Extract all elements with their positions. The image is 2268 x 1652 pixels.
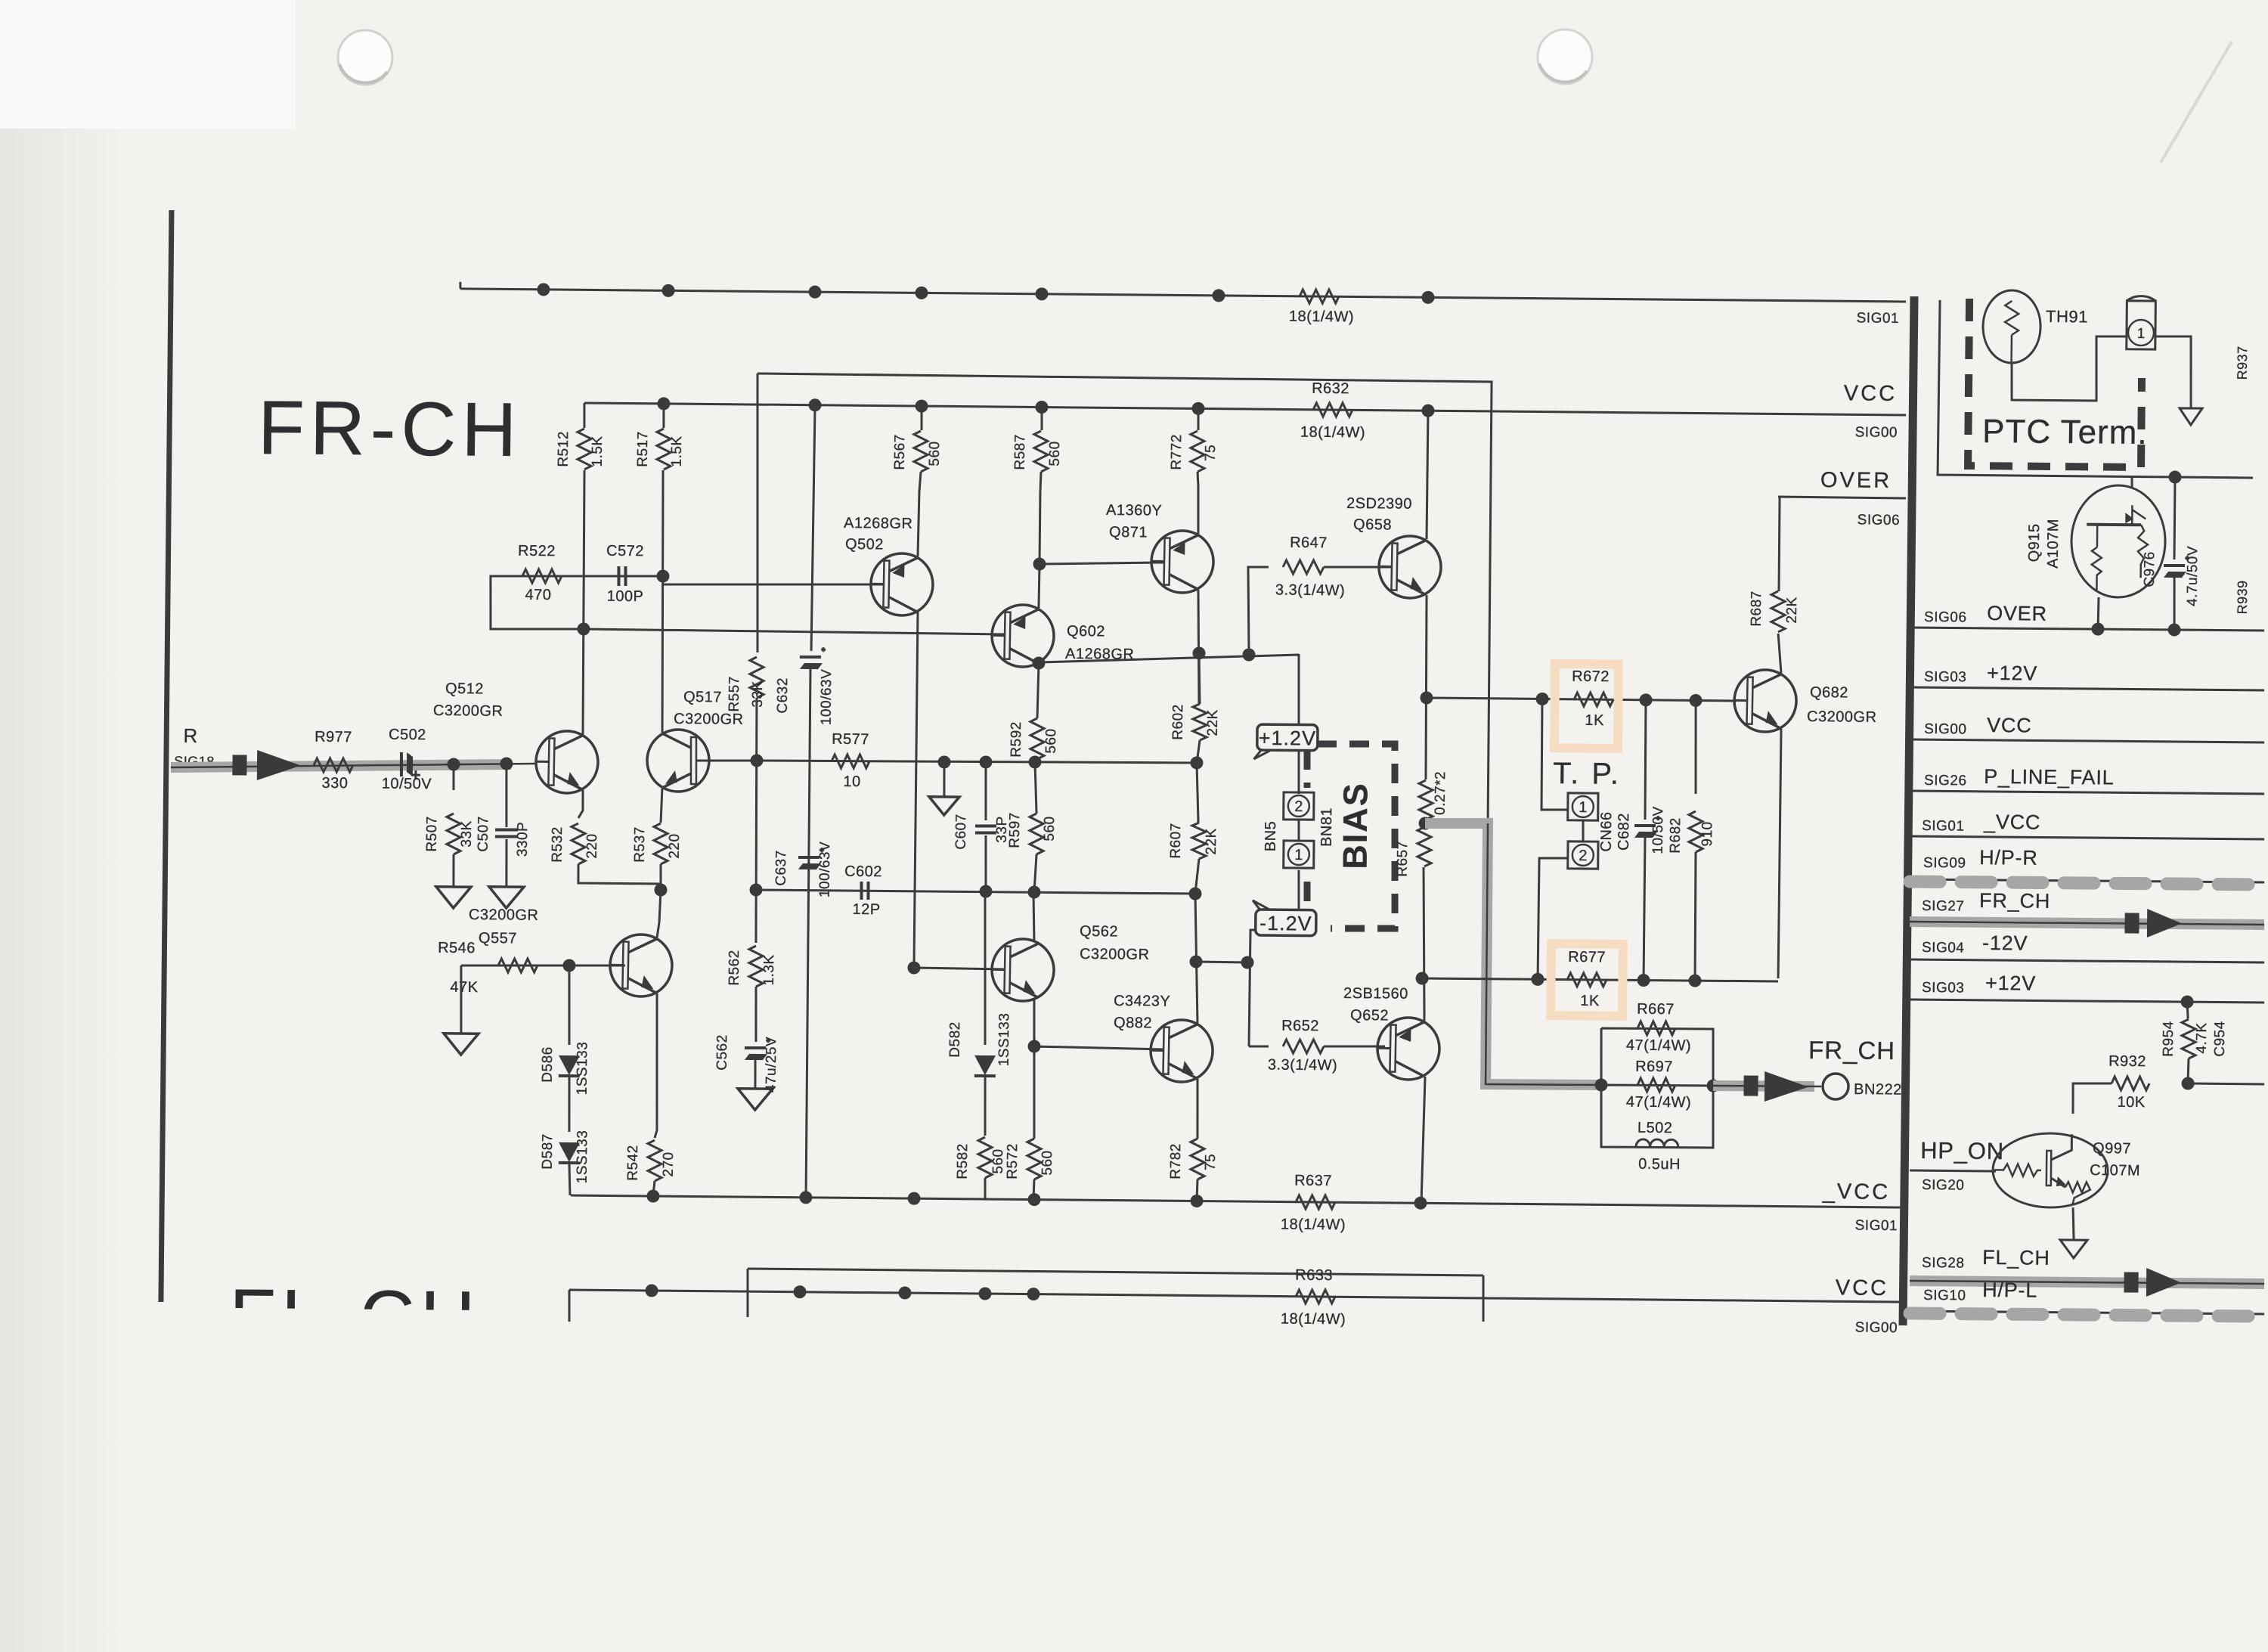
resistor R517 1.5K [662,403,665,428]
node output tap at R657 midpoint [1418,817,1431,829]
svg-text:100P: 100P [607,588,644,605]
resistor R597 560 [1028,755,1041,768]
FL-CH section title (clipped at drawing edge) [229,1274,481,1361]
svg-text:18(1/4W): 18(1/4W) [1289,308,1354,326]
wire TH91 to jack [2012,336,2127,401]
svg-text:VCC: VCC [1844,381,1898,406]
svg-text:75: 75 [1203,1154,1219,1170]
transistor Q871 A1360Y [1151,530,1214,594]
transistor Q562 C3200GR [991,938,1055,1002]
resistor R562 1.3K [749,946,764,987]
node diff pair tail junction [654,883,667,896]
wire bias column upper [1297,654,1300,794]
svg-text:C562: C562 [714,1034,730,1071]
node dots on _VCC rail [646,1189,659,1202]
resistor R572 560 [1027,1139,1042,1179]
parallel R667/R697/L502 box [1600,1028,1715,1148]
wire Q517 base to feedback node [699,760,757,761]
svg-text:A1360Y: A1360Y [1106,502,1162,519]
svg-text:_VCC: _VCC [1822,1179,1891,1204]
resistor R632 18(1/4W) [1313,403,1352,417]
svg-text:SIG04: SIG04 [1922,940,1965,956]
capacitor C607 33P [979,755,992,768]
svg-text:FR_CH: FR_CH [1808,1036,1895,1065]
svg-text:BN81: BN81 [1318,807,1335,847]
svg-text:A1268GR: A1268GR [844,515,913,532]
svg-text:SIG28: SIG28 [1922,1255,1965,1272]
wire CN66 pin2 to R677 row [1538,858,1568,979]
grey dashed H/P-R net [1910,879,2264,883]
capacitor C562 47u/25V with ground [755,987,756,1042]
svg-text:47u/25V: 47u/25V [764,1037,780,1093]
svg-text:10K: 10K [2117,1094,2145,1111]
svg-text:C954: C954 [2212,1021,2228,1057]
svg-text:Q557: Q557 [479,930,517,947]
input arrow [257,750,301,781]
svg-text:C107M: C107M [2090,1162,2140,1179]
svg-text:100/63V: 100/63V [819,669,835,725]
svg-text:R517: R517 [635,431,651,467]
wire OVER to R687 [1779,497,1780,591]
svg-text:R592: R592 [1009,721,1024,758]
svg-text:Q882: Q882 [1114,1015,1152,1031]
svg-text:1SS133: 1SS133 [575,1042,591,1096]
transistor Q512 C3200GR [535,730,599,794]
node dots on VCC rail [657,397,670,410]
svg-text:R587: R587 [1012,434,1028,470]
resistor R582 560 [978,1137,993,1178]
svg-text:75: 75 [1203,445,1219,461]
wire Q602 emitter to R592 [1037,664,1039,718]
svg-text:SIG06: SIG06 [1924,609,1967,626]
resistor R697 47(1/4W) [1637,1078,1675,1093]
transistor Q502 A1268GR [870,553,934,616]
thermistor TH91 [1983,290,2041,364]
svg-text:1SS133: 1SS133 [575,1130,591,1184]
svg-text:C507: C507 [476,816,491,852]
resistor R782 75 [1191,1139,1205,1179]
svg-text:Q512: Q512 [445,680,484,697]
svg-text:C3200GR: C3200GR [433,702,503,720]
output square mark [1743,1075,1758,1096]
svg-text:CN66: CN66 [1598,811,1615,851]
wire Q517 emitter to R537 [661,789,662,823]
svg-text:2: 2 [1579,848,1587,864]
wire Q502 collector down to Q562 base node [914,612,918,968]
svg-text:470: 470 [525,587,551,603]
wire VCC net right [1910,739,2264,743]
wire +12V lower net [1910,1000,2264,1003]
svg-text:C3200GR: C3200GR [674,711,744,728]
resistor R954 4.7K [2187,1002,2188,1018]
resistor R512 1.5K [583,403,586,428]
svg-text:HP_ON: HP_ON [1920,1137,2004,1164]
wire SIG01 top rail [460,288,1906,302]
svg-text:47(1/4W): 47(1/4W) [1626,1037,1691,1055]
node dots on R677 row [1531,973,1544,986]
svg-text:C632: C632 [775,677,791,714]
node dots on FL-CH VCC rail [645,1284,658,1297]
wire Q557 base row with R546 [461,964,625,967]
connector BN81/BN5 pins [1297,820,1300,841]
wire _VCC bottom rail [571,1195,1906,1208]
svg-text:R657: R657 [1395,841,1411,877]
svg-text:22K: 22K [1784,597,1800,624]
wire input [171,761,536,771]
resistor R637 18(1/4W) [1296,1195,1335,1210]
wire Q512 emitter to R532 [578,790,583,818]
svg-text:D582: D582 [947,1021,963,1058]
svg-text:T. P.: T. P. [1553,757,1621,791]
node dots C602 row [979,885,992,897]
svg-text:R507: R507 [424,816,440,852]
wire R677 row [1422,978,1778,982]
svg-text:22K: 22K [1205,709,1221,736]
transistor Q517 C3200GR (mirrored) [647,730,709,792]
svg-text:D587: D587 [540,1133,556,1170]
wire Q502 base [663,582,884,586]
svg-text:SIG01: SIG01 [1855,1218,1898,1235]
svg-text:A107M: A107M [2045,519,2062,569]
svg-text:R937: R937 [2235,346,2250,380]
svg-text:47(1/4W): 47(1/4W) [1626,1094,1691,1111]
svg-text:R577: R577 [832,731,869,748]
svg-text:C976: C976 [2142,551,2158,587]
orange highlight R677 [1551,944,1623,1016]
svg-text:R602: R602 [1170,704,1186,740]
wire Q562 collector [1033,892,1034,942]
svg-text:560: 560 [1039,1150,1055,1175]
svg-text:SIG26: SIG26 [1924,773,1967,789]
svg-text:SIG06: SIG06 [1857,512,1901,528]
resistor R587 560 [1040,408,1043,430]
resistor R602 22K [1193,704,1207,740]
resistor R567 560 [920,406,923,430]
wire protection sense row [1427,698,1737,701]
svg-text:Q652: Q652 [1350,1007,1389,1024]
resistor R522 470 [522,569,562,584]
wire Q915 emitter to OVER [2097,597,2100,629]
svg-text:560: 560 [990,1148,1006,1173]
resistor R507 33K with ground [452,764,455,790]
svg-text:+1.2V: +1.2V [1259,727,1317,750]
svg-text:Q871: Q871 [1109,524,1148,541]
svg-text:R772: R772 [1169,434,1185,470]
svg-text:C3200GR: C3200GR [1080,946,1150,963]
wire Q997 emitter to ground [2073,1207,2074,1240]
diode D582 1SS133 [984,892,987,1045]
wire emitter row to bias column [1039,652,1299,665]
svg-text:R582: R582 [955,1143,971,1179]
resistor R657 0.27x2 emitter resistors [1419,780,1433,820]
svg-text:FR_CH: FR_CH [1979,889,2050,913]
wire Q562 emitter to R572 [1033,998,1035,1139]
svg-text:220: 220 [667,833,683,858]
svg-text:Q562: Q562 [1080,923,1118,940]
orange highlight R672 [1554,664,1619,749]
wire output path [1486,823,1603,1085]
wire -12V net [1910,959,2264,963]
resistor R682 910 [1695,699,1696,794]
callout +1.2V [1254,724,1318,760]
resistor R532 220 [571,823,585,864]
svg-text:FR-CH: FR-CH [258,386,522,473]
svg-text:0.5uH: 0.5uH [1638,1156,1681,1173]
capacitor C637 100/63V [798,856,820,860]
svg-text:18(1/4W): 18(1/4W) [1281,1311,1346,1328]
wire Q652 collector to _VCC [1421,1077,1425,1203]
wire T.P. column [1541,698,1569,810]
svg-text:SIG10: SIG10 [1923,1288,1966,1304]
svg-text:1SS133: 1SS133 [996,1013,1013,1067]
grey input signal trace [171,761,511,770]
transistor Q882 C3423Y [1150,1019,1213,1083]
svg-text:R557: R557 [727,676,742,712]
svg-text:R637: R637 [1294,1173,1332,1189]
wire FL-CH VCC rail with R633 [569,1290,1906,1303]
capacitor C976 4.7u/50V [2174,477,2175,559]
resistor R687 22K [1771,591,1786,632]
resistor R546 47K [498,959,538,973]
svg-text:1K: 1K [1585,712,1604,729]
wire VAS output row [757,759,1197,765]
resistor 18(1/4W) on SIG01 rail [1300,290,1339,304]
svg-text:10: 10 [843,773,860,790]
resistor R592 560 [1030,718,1045,759]
svg-text:Q602: Q602 [1067,623,1105,640]
svg-text:Q682: Q682 [1810,684,1848,701]
svg-text:C3200GR: C3200GR [469,907,539,924]
wire P_LINE_FAIL net [1910,791,2264,795]
input square mark [232,755,246,775]
wire Q557 emitter to R542 [655,993,658,1138]
svg-text:12P: 12P [852,901,880,918]
svg-text:R562: R562 [727,950,742,986]
punch hole left [338,30,392,85]
dashed PTC Term box [1968,299,2143,467]
svg-text:VCC: VCC [1836,1275,1889,1300]
wire Q882 emitter to R782 [1197,1079,1198,1139]
svg-text:47K: 47K [450,979,478,996]
svg-text:33K: 33K [459,820,475,848]
svg-text:0.27*2: 0.27*2 [1433,771,1449,815]
svg-text:-12V: -12V [1982,931,2028,955]
node dots on SIG01 rail [537,283,550,296]
svg-text:R672: R672 [1572,668,1610,685]
svg-text:D586: D586 [540,1046,556,1083]
inductor L502 0.5uH [1636,1139,1678,1148]
svg-text:SIG20: SIG20 [1922,1177,1965,1194]
svg-text:R682: R682 [1668,817,1684,854]
capacitor C602 12P [860,882,863,900]
svg-text:22K: 22K [1204,828,1219,855]
svg-text:PTC Term.: PTC Term. [1982,413,2148,451]
svg-text:+12V: +12V [1985,972,2036,995]
wire Q557 collector [657,890,661,938]
grey output signal trace [1423,823,1603,1085]
capacitor C502 10/50V [400,752,404,776]
output arrow FR_CH [1765,1071,1808,1102]
transistor Q997 C107M digital [1993,1133,2108,1207]
wire Q652 emitter up to R657 [1422,867,1426,1021]
svg-text:R: R [183,724,198,747]
svg-text:R522: R522 [518,543,556,559]
svg-text:R954: R954 [2161,1021,2177,1057]
svg-text:FL_CH: FL_CH [1982,1246,2050,1269]
svg-text:18(1/4W): 18(1/4W) [1300,424,1365,442]
svg-text:560: 560 [1047,441,1063,466]
svg-text:R932: R932 [2108,1053,2146,1070]
wire bias column lower [1249,869,1300,1046]
svg-text:C572: C572 [606,543,644,559]
svg-text:10/50V: 10/50V [382,776,432,793]
svg-text:R667: R667 [1637,1001,1675,1018]
svg-text:100/63V: 100/63V [817,841,834,897]
resistor R537 220 [654,823,668,864]
svg-text:R677: R677 [1568,949,1606,965]
svg-text:C3200GR: C3200GR [1807,708,1877,726]
svg-text:R632: R632 [1312,380,1349,397]
svg-text:1.5K: 1.5K [590,435,606,466]
svg-text:C637: C637 [773,850,789,886]
svg-text:220: 220 [584,833,600,858]
svg-text:1: 1 [2137,326,2146,342]
transistor Q682 C3200GR protection [1734,669,1797,733]
svg-text:3.3(1/4W): 3.3(1/4W) [1268,1057,1338,1074]
svg-text:R512: R512 [556,431,572,467]
diode D586 1SS133 [569,965,570,1045]
svg-text:SIG01: SIG01 [1857,310,1900,327]
wire HP_ON net [1910,1170,1996,1171]
wire base row to Q602 [584,629,1005,634]
resistor R557 33K [755,373,761,652]
svg-text:560: 560 [1043,728,1059,753]
svg-text:R572: R572 [1005,1143,1021,1179]
svg-text:270: 270 [661,1151,677,1176]
svg-text:C607: C607 [953,814,969,850]
grey trace to BN222 [1713,1086,1814,1086]
svg-text:BIAS: BIAS [1335,782,1374,869]
dashed BIAS box [1315,743,1397,929]
svg-text:R939: R939 [2235,580,2250,614]
svg-text:R633: R633 [1295,1267,1333,1284]
svg-text:BN222: BN222 [1854,1081,1902,1099]
resistor R577 10 [832,755,869,769]
grey FR_CH net with arrow [1910,922,2264,925]
capacitor C572 100P [617,566,621,586]
grey FL_CH net with arrow [1910,1281,2264,1285]
connector BN222 [1823,1074,1848,1099]
svg-text:R567: R567 [892,434,908,470]
svg-text:SIG00: SIG00 [1924,721,1967,738]
wire R932 to Q997 [2073,1083,2112,1114]
svg-text:H/P-R: H/P-R [1979,846,2038,869]
svg-text:R607: R607 [1168,823,1184,859]
capacitor C632 100/63V [811,408,815,651]
transistor Q915 A107M digital [2071,485,2165,597]
svg-text:3.3(1/4W): 3.3(1/4W) [1275,582,1346,600]
svg-text:Q915: Q915 [2026,523,2043,562]
svg-text:H/P-L: H/P-L [1982,1279,2037,1302]
svg-text:SIG00: SIG00 [1855,1320,1898,1337]
svg-text:C3423Y: C3423Y [1114,993,1170,1010]
svg-text:1.3K: 1.3K [761,954,777,985]
resistor R977 330 [314,758,353,773]
wire Q882 collector chain [1194,894,1198,1023]
connector CN66 T.P. [1582,820,1585,841]
svg-text:SIG03: SIG03 [1924,669,1967,686]
capacitor C507 330P with ground [506,764,507,827]
svg-text:560: 560 [927,441,943,466]
svg-text:+12V: +12V [1987,662,2037,685]
corner crease top right [2161,42,2232,163]
svg-text:_VCC: _VCC [1983,811,2041,834]
grey dashed H/P-L net [1910,1311,2264,1315]
svg-text:R697: R697 [1635,1058,1673,1075]
svg-text:1K: 1K [1580,993,1600,1009]
svg-text:18(1/4W): 18(1/4W) [1281,1217,1346,1234]
node dots on sense row [1535,693,1548,705]
svg-text:BN5: BN5 [1263,821,1279,852]
resistor R672 1K [1574,693,1613,707]
wire Q871 base row [1039,561,1164,565]
svg-text:Q997: Q997 [2093,1140,2131,1157]
svg-text:910: 910 [1699,821,1715,846]
wire Q871 collector to R772 [1198,485,1198,534]
svg-text:330: 330 [321,775,348,792]
wire Q882 base row [1034,1046,1163,1049]
resistor R633 18(1/4W) [1296,1290,1335,1304]
node dots output combiner [1594,1078,1607,1091]
capacitor C682 10/50V [1645,699,1647,820]
svg-text:TH91: TH91 [2046,307,2088,327]
svg-text:SIG27: SIG27 [1922,898,1965,915]
svg-text:33K: 33K [750,680,766,708]
punch hole middle [1538,29,1592,84]
wire Q602 collector vertical [1037,567,1040,608]
svg-text:Q658: Q658 [1353,516,1392,533]
resistor R932 10K [2182,1077,2195,1089]
node Q882 base row tap [1027,1040,1040,1052]
wire feedback line to output node [754,373,1492,823]
transistor Q557 C3200GR current source [609,934,673,997]
headphone jack contact [2127,296,2156,349]
resistor R542 270 [648,1140,662,1181]
svg-text:SIG00: SIG00 [1855,424,1898,441]
svg-text:R597: R597 [1007,812,1023,848]
wire bias link row [1196,962,1247,962]
wire C602 row [756,890,1195,894]
svg-text:R652: R652 [1281,1018,1319,1034]
svg-text:560: 560 [1042,816,1058,841]
resistor R652 3.3(1/4W) [1249,1045,1269,1047]
wire +12V net [1910,687,2264,691]
svg-text:-1.2V: -1.2V [1259,912,1312,935]
svg-text:10/50V: 10/50V [1650,806,1667,854]
wire Q871 emitter down to R602 [1198,590,1201,704]
ground for R546 [460,965,462,1034]
resistor R607 22K [1192,823,1207,859]
svg-text:R546: R546 [438,940,476,956]
svg-text:SIG03: SIG03 [1922,980,1965,996]
wire Q682 collector to R687 [1778,634,1782,673]
svg-text:OVER: OVER [1820,468,1892,493]
svg-text:Q502: Q502 [845,536,884,553]
svg-text:R782: R782 [1168,1143,1184,1179]
svg-text:2SB1560: 2SB1560 [1343,985,1408,1003]
wire jack to ground [2155,336,2192,408]
svg-text:SIG09: SIG09 [1923,855,1966,872]
